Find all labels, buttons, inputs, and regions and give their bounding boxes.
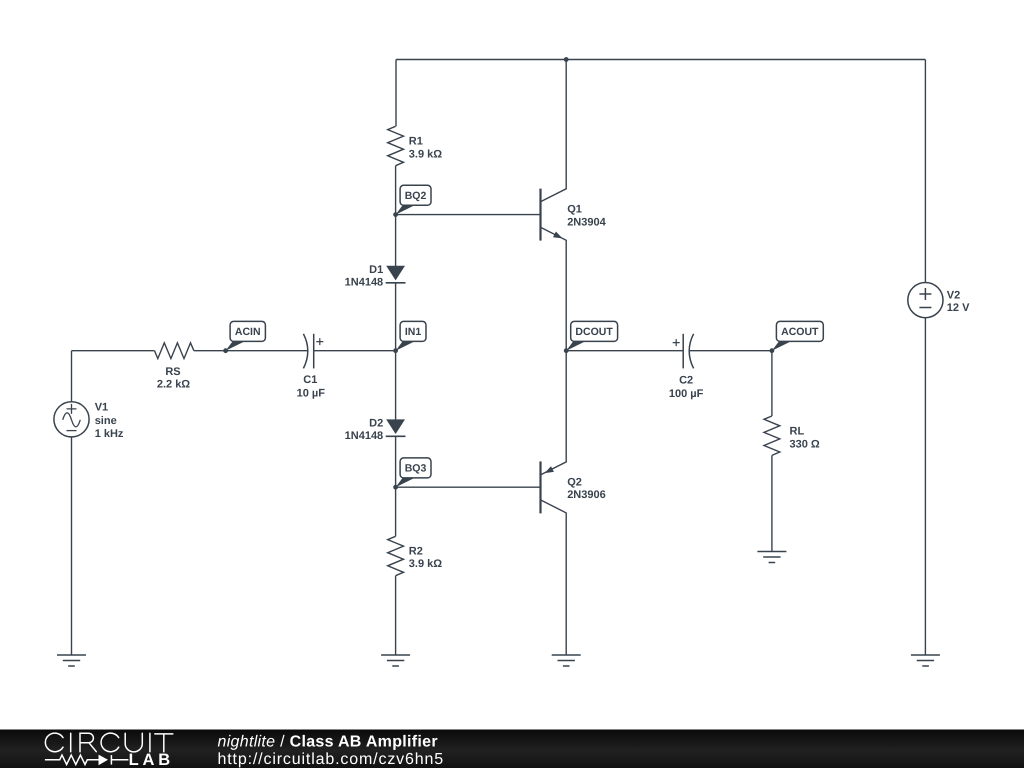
svg-text:ACOUT: ACOUT — [781, 326, 819, 338]
svg-text:C1: C1 — [303, 374, 317, 386]
svg-text:ACIN: ACIN — [235, 326, 261, 338]
svg-text:LAB: LAB — [129, 751, 174, 768]
svg-text:C2: C2 — [679, 375, 693, 387]
svg-text:V2: V2 — [947, 290, 960, 302]
svg-text:10 µF: 10 µF — [297, 387, 326, 399]
svg-text:RL: RL — [790, 425, 805, 437]
svg-text:D2: D2 — [369, 417, 383, 429]
svg-text:R1: R1 — [409, 136, 423, 148]
svg-text:Q2: Q2 — [567, 477, 582, 489]
svg-text:2N3906: 2N3906 — [567, 489, 606, 501]
svg-text:D1: D1 — [369, 264, 383, 276]
svg-text:http://circuitlab.com/czv6hn5: http://circuitlab.com/czv6hn5 — [218, 751, 445, 768]
svg-text:330 Ω: 330 Ω — [790, 439, 820, 451]
svg-text:1 kHz: 1 kHz — [95, 428, 124, 440]
svg-text:nightlite / Class AB Amplifier: nightlite / Class AB Amplifier — [218, 734, 438, 751]
svg-text:R2: R2 — [409, 545, 423, 557]
svg-text:100 µF: 100 µF — [669, 388, 704, 400]
svg-text:BQ3: BQ3 — [405, 463, 427, 475]
svg-text:2N3904: 2N3904 — [567, 217, 606, 229]
svg-text:Q1: Q1 — [567, 203, 582, 215]
svg-text:1N4148: 1N4148 — [345, 277, 384, 289]
svg-text:3.9 kΩ: 3.9 kΩ — [409, 149, 442, 161]
svg-text:RS: RS — [165, 366, 180, 378]
svg-text:DCOUT: DCOUT — [575, 326, 613, 338]
svg-text:1N4148: 1N4148 — [345, 430, 384, 442]
svg-text:3.9 kΩ: 3.9 kΩ — [409, 558, 442, 570]
svg-text:BQ2: BQ2 — [405, 190, 427, 202]
svg-text:sine: sine — [95, 415, 117, 427]
svg-text:12 V: 12 V — [947, 302, 970, 314]
svg-text:V1: V1 — [95, 401, 108, 413]
svg-text:IN1: IN1 — [405, 326, 422, 338]
svg-text:2.2 kΩ: 2.2 kΩ — [157, 379, 190, 391]
